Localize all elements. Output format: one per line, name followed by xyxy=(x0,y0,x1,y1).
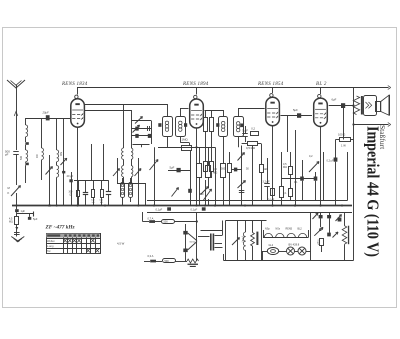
IFT1 coil b xyxy=(176,117,186,137)
wire x347 xyxy=(347,152,349,201)
coil L1 xyxy=(26,125,28,137)
wire grid leak drop xyxy=(287,116,289,153)
capacitor blob x63.7 xyxy=(62,171,65,174)
wire HT rail xyxy=(147,200,347,202)
capacitor blob IFT2 left xyxy=(216,123,219,127)
wire padding xyxy=(122,197,124,206)
capacitor blob 6uF xyxy=(341,103,345,108)
svg-text:0,2: 0,2 xyxy=(251,126,255,130)
selector arrow a xyxy=(313,213,319,219)
svg-text:000: 000 xyxy=(37,153,39,158)
junction xyxy=(104,204,106,206)
svg-text:Tal: Tal xyxy=(47,249,51,253)
svg-text:Imperial 44 G (110 V): Imperial 44 G (110 V) xyxy=(364,126,383,257)
speaker cone xyxy=(381,95,389,115)
trimmer over rung top xyxy=(135,117,143,124)
capacitor blob pot top xyxy=(185,224,187,231)
svg-text:kΩ: kΩ xyxy=(100,202,103,204)
IFT2 coil b xyxy=(234,117,244,137)
capacitor x85.5 xyxy=(85,180,87,192)
wire xyxy=(41,160,43,180)
resistor box x93.5 xyxy=(93,180,95,189)
resistor on V3 cathode xyxy=(271,189,275,196)
resistor box x281 xyxy=(281,152,283,186)
capacitor 0,1uF inter-rail xyxy=(202,207,206,210)
resistor box xyxy=(221,164,226,178)
wire x215 drop xyxy=(215,147,217,205)
resistor 300ohm x78 xyxy=(78,180,80,191)
wire xyxy=(56,177,58,205)
wire: drop to V4 top cap xyxy=(320,88,322,94)
wire: drop to V3 top cap xyxy=(272,88,274,93)
capacitor blob IFT1 left xyxy=(158,123,161,127)
svg-text:0,1μF: 0,1μF xyxy=(156,208,163,212)
trimmer pair b xyxy=(208,177,210,188)
resistor 500 xyxy=(229,152,231,163)
osc bracket left xyxy=(117,158,119,183)
wire xyxy=(175,261,187,263)
capacitor 500pF antenna series xyxy=(13,151,19,153)
resistor WW xyxy=(187,259,199,263)
capacitor blob 5uF coupling xyxy=(297,113,301,118)
wire IFT1 b top to V2 xyxy=(180,108,182,117)
selector top link xyxy=(201,230,223,232)
resistor 4,5M xyxy=(15,217,19,225)
wire: x49 osc xyxy=(49,155,51,206)
wire 5uF branch xyxy=(17,213,34,215)
svg-text:MΩ: MΩ xyxy=(9,220,13,223)
svg-text:0,2: 0,2 xyxy=(309,155,313,158)
resistor 1 Mohm xyxy=(182,146,192,151)
fuse box a xyxy=(149,220,155,223)
junction xyxy=(272,204,274,206)
svg-text:GL2: GL2 xyxy=(269,244,274,247)
wire V4 bottom xyxy=(320,127,322,206)
svg-text:Wellen: Wellen xyxy=(47,239,55,243)
tube V2 RENS 1894 xyxy=(190,99,204,128)
osc coil upper right xyxy=(131,148,133,159)
capacitor blob rung C a xyxy=(135,134,138,138)
svg-text:3,2 μF: 3,2 μF xyxy=(263,180,271,183)
junction xyxy=(341,204,343,206)
potentiometer vee xyxy=(188,233,197,241)
svg-text:0,1μF: 0,1μF xyxy=(191,208,198,212)
capacitor 0,1uF inter-rail left xyxy=(167,207,171,210)
wire V3 anode to V4 grid xyxy=(281,115,313,117)
field coil frame xyxy=(364,96,377,116)
svg-text:0,7 A: 0,7 A xyxy=(148,217,154,221)
svg-text:0,1μF: 0,1μF xyxy=(316,240,318,246)
capacitor blob x190 xyxy=(188,189,192,193)
capacitor x108.5 xyxy=(108,180,110,192)
osc padding coil a xyxy=(121,183,125,198)
wire: drop x25.7 xyxy=(25,118,27,125)
svg-text:RENS 1834: RENS 1834 xyxy=(61,82,88,87)
svg-text:1 W: 1 W xyxy=(341,144,346,148)
wire IFT2 a top xyxy=(223,110,225,117)
osc coil lower right xyxy=(131,166,133,177)
capacitor blob IFT1 right xyxy=(184,123,187,127)
svg-text:20μF: 20μF xyxy=(42,111,49,115)
comb wire a xyxy=(225,221,227,261)
dropper WW vertical xyxy=(252,221,254,233)
svg-text:RENS 1854: RENS 1854 xyxy=(257,82,284,87)
capacitor series rung B xyxy=(147,126,149,131)
speaker cone mouth xyxy=(388,95,390,116)
capacitor blob IFT2 right xyxy=(240,124,243,128)
trimmer x49 xyxy=(46,167,53,175)
wire mixer rung C xyxy=(131,135,151,137)
wire xyxy=(174,221,197,223)
capacitor blob rung B xyxy=(135,127,138,131)
svg-text:100 Ω: 100 Ω xyxy=(338,133,345,137)
coil x41.5 xyxy=(42,148,44,160)
wire 0,5M feed xyxy=(242,143,247,145)
wire V3 bottom xyxy=(272,126,274,206)
pilot lamp a xyxy=(287,247,295,255)
table header ticks xyxy=(64,234,67,236)
resistor box x101.7 xyxy=(101,180,103,189)
wire xyxy=(156,261,162,263)
capacitor blob 0,1 b xyxy=(314,177,318,181)
wire osc bottom xyxy=(123,177,125,183)
pilot lamp b xyxy=(298,247,306,255)
svg-text:0,5 MΩ: 0,5 MΩ xyxy=(246,146,255,150)
resistor 0,5M h xyxy=(248,142,258,146)
comb wire b xyxy=(237,221,239,261)
svg-text:M: M xyxy=(8,186,11,190)
wire x189 drop xyxy=(189,143,191,146)
wire agc feed a xyxy=(91,144,93,180)
bus bar chassis rail xyxy=(12,205,352,207)
wire y147 bus xyxy=(158,147,215,149)
barretter 500 a xyxy=(162,220,175,224)
svg-text:K: K xyxy=(8,191,10,195)
svg-text:(Heiz): (Heiz) xyxy=(241,236,244,243)
junction xyxy=(49,204,51,206)
wire IFT2 b top to V3 xyxy=(238,108,240,117)
resistor box x205 upper xyxy=(205,110,207,117)
wire: drop to V1 top cap xyxy=(77,88,79,95)
capacitor blob pot bottom xyxy=(183,249,187,253)
wire y178 bus xyxy=(281,178,317,180)
resistor box 0.3M a xyxy=(199,147,201,163)
wire agc bus xyxy=(74,180,109,182)
wire x145.6 drop xyxy=(145,183,147,206)
svg-text:500: 500 xyxy=(164,221,169,224)
svg-text:0,1: 0,1 xyxy=(283,192,287,195)
osc coil lower left xyxy=(122,166,124,177)
wire lamp links xyxy=(279,251,287,253)
table x marks xyxy=(63,239,67,243)
capacitor blob sel c xyxy=(338,218,342,222)
ground hatch xyxy=(188,264,199,265)
svg-text:6μF: 6μF xyxy=(332,98,337,102)
capacitor blob screen xyxy=(232,169,242,171)
svg-text:300: 300 xyxy=(69,191,74,193)
capacitor blob L1 xyxy=(25,137,27,142)
svg-text:BL 2: BL 2 xyxy=(316,82,327,87)
junction xyxy=(294,204,296,206)
svg-text:50: 50 xyxy=(246,168,249,171)
wire IFT1 a bottom xyxy=(167,136,169,147)
svg-text:RENS: RENS xyxy=(286,227,293,230)
wire mixer rung B xyxy=(131,128,151,130)
wire x310.5 xyxy=(310,212,312,261)
wire: input top line xyxy=(26,118,71,120)
power transformer comb top xyxy=(226,220,267,222)
wire IFT2 b bottom xyxy=(238,137,240,147)
svg-text:4,5 W: 4,5 W xyxy=(117,242,125,246)
svg-text:40 μF: 40 μF xyxy=(67,174,74,178)
wire: drop to V2 top cap xyxy=(196,88,198,95)
selector tap 1 xyxy=(215,235,223,237)
wire antenna lead lower xyxy=(16,154,18,185)
svg-text:0,1: 0,1 xyxy=(294,181,298,184)
osc bracket right xyxy=(138,158,140,206)
capacitor blob sel a xyxy=(319,215,323,218)
arrowhead down xyxy=(15,227,18,230)
IFT2 coil a xyxy=(219,117,228,137)
wire comb right xyxy=(261,221,263,261)
capacitor blob rung C b xyxy=(148,134,151,138)
svg-text:Ω: Ω xyxy=(70,194,72,196)
wire V4 anode out xyxy=(329,105,354,107)
wire anode cap drop xyxy=(343,108,345,140)
wire xyxy=(185,235,187,249)
wire x295 xyxy=(295,130,297,206)
selector arrow d xyxy=(336,215,342,222)
wire lower rail xyxy=(147,212,352,214)
wire V2 lead lower xyxy=(196,147,198,205)
wire x190 drop xyxy=(190,151,192,206)
coil L1b xyxy=(26,150,28,162)
capacitor blob 0,2 xyxy=(335,140,337,159)
svg-text:50 kΩ: 50 kΩ xyxy=(190,241,196,243)
capacitor 20pF blob xyxy=(46,115,50,120)
wire: grid-cap top rail xyxy=(77,87,356,89)
wire x353.5 main drop xyxy=(353,88,355,261)
IFT1 coil a xyxy=(163,117,173,137)
svg-text:MΩ: MΩ xyxy=(283,166,287,169)
selector bar a xyxy=(210,234,212,251)
adjustment table xyxy=(47,234,101,254)
svg-text:BV 428.8: BV 428.8 xyxy=(289,243,300,247)
wire V1 anode to IFT1 xyxy=(85,104,167,106)
trimmer x63.7 xyxy=(61,158,67,165)
dial lamp oval GL2 xyxy=(267,248,278,255)
coil L2a xyxy=(57,150,59,162)
trimmer x154 xyxy=(154,147,156,205)
svg-text:kΩ: kΩ xyxy=(92,202,95,204)
osc padding coil b xyxy=(129,183,133,198)
wire mixer rung top xyxy=(131,120,151,122)
selector tap 3 xyxy=(215,247,223,249)
field coil squiggle xyxy=(366,102,369,108)
wire mixer tie xyxy=(133,144,150,146)
heater winding xyxy=(245,221,247,233)
svg-text:NSp: NSp xyxy=(265,227,270,230)
capacitor 1uF blob xyxy=(15,209,19,212)
svg-text:500: 500 xyxy=(20,155,23,160)
junction xyxy=(153,204,155,206)
wire xyxy=(56,162,58,166)
wire xyxy=(16,224,18,237)
wire x196.8 drop xyxy=(196,212,198,261)
dropper core bar xyxy=(348,226,349,245)
wire xyxy=(25,165,27,183)
tube V3 RENS 1854 xyxy=(266,97,280,125)
trimmer rung B xyxy=(133,125,140,133)
wire IFT2 a bottom xyxy=(223,137,225,164)
svg-text:L.ang: L.ang xyxy=(47,244,54,248)
wire: drop x41.5 xyxy=(41,118,43,148)
svg-text:NSz: NSz xyxy=(276,227,281,230)
trimmer pair a xyxy=(172,188,179,197)
capacitor blob sel b xyxy=(327,215,331,218)
resistor 0,1M x290 xyxy=(290,174,292,188)
wire V1 osc grid xyxy=(85,110,131,112)
coil L2b xyxy=(57,166,59,178)
capacitor blob 40uF xyxy=(69,179,72,182)
svg-text:0,1μF: 0,1μF xyxy=(268,199,275,202)
wire xyxy=(144,261,150,263)
wire xyxy=(142,212,144,222)
svg-text:BL2: BL2 xyxy=(298,227,303,230)
resistor 0,1uF box xyxy=(320,239,324,246)
junction xyxy=(319,204,321,206)
wire xyxy=(16,212,18,216)
wire x329 sel xyxy=(329,212,331,215)
wire to bus xyxy=(16,193,18,206)
wire IFT1 b bottom xyxy=(180,136,182,143)
svg-text:ZF ~477 kHz: ZF ~477 kHz xyxy=(45,225,76,231)
wire: drop x56.7 xyxy=(56,118,58,150)
wire osc mid links xyxy=(123,159,125,165)
switch arrow x205 xyxy=(205,180,207,206)
svg-text:500: 500 xyxy=(165,260,170,263)
svg-text:5μF: 5μF xyxy=(33,217,38,221)
output transformer primary xyxy=(353,96,359,115)
resistor 0,5M x290 xyxy=(290,152,292,166)
svg-text:0,3 A: 0,3 A xyxy=(148,254,154,258)
svg-text:pF: pF xyxy=(5,153,9,157)
wire agc feed b xyxy=(103,144,105,180)
resistor box x205 xyxy=(204,162,208,172)
capacitor 5uF blob xyxy=(29,214,31,217)
wire mixer mid xyxy=(123,104,125,148)
series capacitor 5uF xyxy=(168,170,190,172)
svg-text:1MΩ: 1MΩ xyxy=(182,138,189,142)
svg-text:500: 500 xyxy=(221,168,226,171)
wire V1 cathode lead xyxy=(77,127,79,205)
wire sel low xyxy=(321,245,323,252)
transformer core bar xyxy=(256,232,258,245)
switch arrow mid xyxy=(314,227,323,235)
selector tap 2 xyxy=(215,243,223,245)
barretter 500 b xyxy=(163,259,176,263)
junction xyxy=(195,204,197,206)
switch arrow near V3 xyxy=(309,162,319,173)
antenna xyxy=(7,80,25,88)
heater chain winding xyxy=(263,237,308,239)
table header fill xyxy=(46,234,99,238)
comb bottom xyxy=(224,260,354,262)
wire heater ends xyxy=(263,230,265,238)
svg-text:RENS 1894: RENS 1894 xyxy=(182,82,209,87)
junction xyxy=(244,204,246,206)
output transformer core bar xyxy=(361,96,363,115)
capacitor blob sel mid xyxy=(327,233,331,237)
wire mixer right rail xyxy=(151,121,153,145)
variable resistor x241 xyxy=(241,146,243,206)
resistor 1k x261 xyxy=(261,144,263,165)
wire xyxy=(155,221,161,223)
wire: drop x63.7 xyxy=(63,118,65,206)
wire xyxy=(16,206,18,210)
resistor box 0.3M b xyxy=(208,147,210,165)
selector bar b xyxy=(213,234,215,251)
waveband switch arrow xyxy=(11,186,21,197)
mains dropper zigzag xyxy=(344,212,346,226)
wire V2 bottom xyxy=(196,129,198,148)
wire speaker top lead xyxy=(356,87,389,89)
svg-text:5μF: 5μF xyxy=(170,166,175,170)
mains selector feed xyxy=(198,236,210,238)
svg-text:500: 500 xyxy=(59,152,62,157)
wire x323 xyxy=(323,152,325,201)
ground xyxy=(11,237,24,241)
osc coil upper left xyxy=(122,148,124,159)
wire x320.5 sel xyxy=(320,212,322,215)
wire x71 40uF xyxy=(71,172,73,206)
wire speaker bottom lead xyxy=(354,124,389,126)
fuse box b xyxy=(150,260,156,263)
svg-text:1μF: 1μF xyxy=(21,209,26,213)
svg-text:0,2 μF: 0,2 μF xyxy=(327,160,335,163)
tube V4 BL 2 xyxy=(314,98,328,126)
resistor box x211 xyxy=(210,162,214,172)
capacitor blob 0,1 a xyxy=(300,177,304,181)
wire xyxy=(25,145,27,150)
resistor box x211 upper xyxy=(211,110,213,117)
capacitor agc xyxy=(14,232,20,234)
wire xyxy=(208,199,210,206)
svg-text:5μF: 5μF xyxy=(293,108,298,112)
speaker neck xyxy=(376,102,381,112)
capacitor blob L1b xyxy=(25,161,27,164)
junction xyxy=(214,204,216,206)
tube V1 RENS 1834 xyxy=(71,99,85,127)
